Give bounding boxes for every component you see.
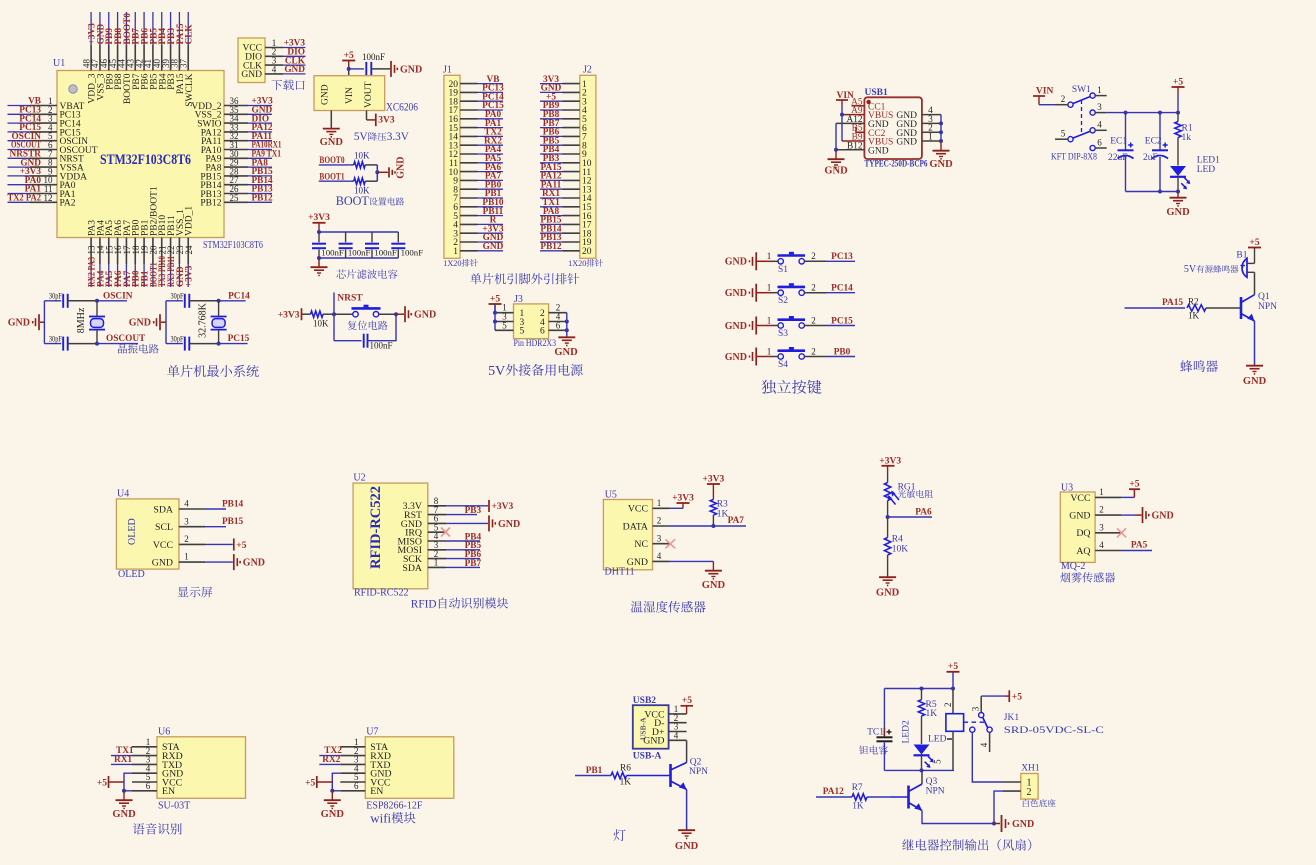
wire bottom rail (relay) <box>884 768 954 772</box>
svg-text:1: 1 <box>928 133 933 143</box>
svg-text:+5: +5 <box>948 662 958 672</box>
svg-text:2: 2 <box>1099 505 1104 515</box>
wire left rail <box>43 301 45 344</box>
svg-text:LED: LED <box>928 735 947 745</box>
svg-text:1: 1 <box>767 346 772 356</box>
ground symbol (filter) <box>311 258 328 275</box>
net label PC14 <box>219 291 251 301</box>
svg-text:S1: S1 <box>778 265 788 275</box>
svg-text:2: 2 <box>811 251 816 261</box>
svg-text:wifi: wifi <box>370 810 391 825</box>
svg-text:+5: +5 <box>1173 77 1183 87</box>
U5 pin 4 GND <box>627 551 670 568</box>
svg-text:SRD-05VDC-SL-C: SRD-05VDC-SL-C <box>1004 726 1104 736</box>
U1 pin 16 PA6 / wire net PA6 <box>113 220 124 287</box>
label 钽电容 <box>859 746 888 755</box>
net label OSCIN <box>97 291 133 301</box>
no-connect NC <box>666 539 676 548</box>
LED1 <box>1170 156 1220 192</box>
svg-text:GND: GND <box>400 64 422 75</box>
capacitor 30pF bottom (32.768K) <box>166 333 221 350</box>
J1 pin 12 net PA4 <box>449 145 504 160</box>
wire net PB3 <box>446 506 481 516</box>
capacitor 100nF filter #2 <box>339 232 371 258</box>
U1 pin 27 PB14 / wire net PB14 <box>200 175 273 191</box>
svg-text:S3: S3 <box>778 329 788 339</box>
caption 继电器控制输出（风扇） <box>902 839 1031 851</box>
svg-text:TC1: TC1 <box>867 728 884 738</box>
USB2 pin 2 D- <box>654 713 686 729</box>
svg-text:1K: 1K <box>717 510 729 520</box>
no-connect DQ <box>1117 528 1126 537</box>
U1 pin 9 VDDA / wire net +3V3 <box>8 166 88 182</box>
wire GND/EN rail (U7) <box>330 773 340 793</box>
U7 pin 1 STA <box>340 737 388 753</box>
J1 pin 20 net VB <box>449 75 504 90</box>
svg-text:GND: GND <box>876 588 900 599</box>
U4 pin 1 GND <box>152 552 205 569</box>
svg-text:NPN: NPN <box>689 767 708 777</box>
transistor Q1 NPN <box>1241 272 1277 321</box>
USB1 right pin 1 GND <box>896 133 941 148</box>
USB1 pin B9 VBUS <box>852 133 894 148</box>
U1 pin 39 PB3 / wire net PB3 <box>161 12 177 90</box>
power flag +3V3 (U5) <box>670 493 695 508</box>
ground flag GND (S1) <box>725 252 772 270</box>
wire net PB4 <box>446 532 481 542</box>
USB1 wire VBUS A9/B9 to VIN <box>840 106 864 141</box>
U1 pin 15 PA5 / wire net PA5 <box>104 220 115 287</box>
svg-text:LED1: LED1 <box>1197 156 1220 166</box>
power flag +5 (relay) <box>947 662 960 688</box>
connector XH1 <box>1003 764 1040 800</box>
crystal 8MHz <box>76 301 105 344</box>
svg-text:B1: B1 <box>1236 251 1247 261</box>
svg-text:4: 4 <box>979 742 989 747</box>
caption 5V有源蜂鸣器 <box>1184 264 1238 275</box>
ground flag GND (crystal 32.768K) <box>129 314 166 330</box>
download port pin 2 DIO net DIO <box>245 47 305 63</box>
caption 下载口 <box>271 80 304 91</box>
wire GND pin to ground <box>330 111 332 128</box>
U2 pin 8 3.3V <box>403 496 446 512</box>
ground symbol (U7) <box>321 791 345 820</box>
svg-text:NPN: NPN <box>926 786 945 796</box>
U1 pin 8 VSSA / wire net GND <box>8 158 84 174</box>
U1 pin 10 PA0 / wire net PA0 <box>8 175 76 191</box>
svg-text:GND: GND <box>1243 376 1267 387</box>
U1 pin 40 PB4 / wire net PB4 <box>152 12 168 90</box>
J1 pin 18 net PC14 <box>449 92 505 107</box>
svg-text:2: 2 <box>811 283 816 293</box>
capacitor EC1 22uF <box>1108 113 1134 192</box>
caption 温湿度传感器 <box>631 601 706 613</box>
U7 pin 3 TXD <box>340 755 390 771</box>
svg-text:GND: GND <box>868 146 889 156</box>
wire bottom rail <box>317 256 398 260</box>
wire +5 rail left <box>493 304 497 330</box>
U1 pin 35 VSS_2 / wire net GND <box>195 105 273 121</box>
svg-text:GND: GND <box>241 70 262 80</box>
svg-text:TX2 PA2: TX2 PA2 <box>8 194 42 204</box>
ground symbol (SW1 block) <box>1166 198 1190 218</box>
power flag VIN (SW1) <box>1033 87 1053 105</box>
svg-text:+5: +5 <box>490 294 500 304</box>
svg-text:SCL: SCL <box>155 522 173 533</box>
svg-text:VOUT: VOUT <box>364 81 374 108</box>
J3 pin 5 wire <box>495 320 514 330</box>
USB1 stub CC1 <box>852 105 865 107</box>
U2 pin 5 IRQ <box>405 522 446 538</box>
U1 pin 45 PB8 / wire net PB8 <box>108 12 124 90</box>
U1 pin 37 SWCLK / wire net CLK <box>179 12 195 107</box>
capacitor EC2 2uF <box>1143 113 1168 192</box>
svg-text:GND: GND <box>1012 819 1034 830</box>
U7 pin 2 RXD <box>340 746 391 762</box>
svg-text:GND: GND <box>675 841 699 852</box>
svg-text:SDA: SDA <box>153 504 173 515</box>
svg-text:R4: R4 <box>892 535 903 545</box>
U6 pin 4 GND <box>132 763 183 779</box>
wire left rail <box>165 301 167 344</box>
svg-text:RX2: RX2 <box>322 755 340 765</box>
resistor 10K (reset) <box>311 311 335 328</box>
USB2 pin 4 GND <box>643 731 686 747</box>
svg-text:+5: +5 <box>1129 480 1139 490</box>
svg-text:KFT DIP-8X8: KFT DIP-8X8 <box>1051 153 1097 163</box>
svg-text:R1: R1 <box>1182 124 1193 134</box>
svg-text:PB12: PB12 <box>252 194 274 204</box>
svg-text:DQ: DQ <box>1076 528 1090 539</box>
resistor 10K (BOOT1) <box>354 178 378 195</box>
svg-text:XC6206: XC6206 <box>386 99 418 113</box>
capacitor 30pF top (8MHz) <box>44 290 99 307</box>
svg-text:GND: GND <box>396 157 407 179</box>
svg-text:1K: 1K <box>926 709 938 719</box>
module U7 ESP8266-12F <box>365 727 454 812</box>
svg-text:1X20: 1X20 <box>568 259 586 268</box>
svg-text:OSCOUT: OSCOUT <box>106 334 146 344</box>
caption 单片机最小系统 <box>167 365 259 377</box>
svg-text:1k: 1k <box>1182 133 1192 143</box>
J1 pin 15 net PA1 <box>449 119 504 134</box>
caption wifi模块 <box>370 810 415 825</box>
J3 pin 4 wire <box>549 312 567 322</box>
caption 独立按键 <box>761 380 821 394</box>
power flag +5 (U6) <box>97 776 124 788</box>
U5 pin 2 DATA <box>623 516 670 533</box>
svg-text:1: 1 <box>657 498 662 508</box>
wire top rail <box>317 230 398 234</box>
svg-text:VIN: VIN <box>345 87 355 104</box>
svg-text:U2: U2 <box>353 473 365 484</box>
J2 pin 1 net 3V3 <box>540 75 587 90</box>
USB1 pin B5 CC2 <box>852 124 886 139</box>
svg-text:GND: GND <box>243 558 265 569</box>
svg-text:22uF: 22uF <box>1108 153 1128 163</box>
U1 pin 30 PA9 / wire net PA9 TX1 <box>205 149 281 165</box>
svg-text:VDD_1: VDD_1 <box>185 206 195 236</box>
svg-text:VIN: VIN <box>1036 87 1054 97</box>
download port pin 3 CLK net CLK <box>243 56 306 72</box>
USB1 right pin 4 GND <box>896 106 941 121</box>
wire net PB6 <box>446 550 481 560</box>
svg-text:SU-03T: SU-03T <box>158 801 190 812</box>
svg-text:CLK: CLK <box>185 24 195 45</box>
svg-text:GND: GND <box>725 321 747 332</box>
svg-text:GND: GND <box>8 318 30 329</box>
svg-text:5V: 5V <box>354 131 368 143</box>
regulator U? XC6206 <box>314 76 418 114</box>
U3 pin 2 GND <box>1069 505 1121 522</box>
svg-text:R6: R6 <box>620 764 631 774</box>
U2 pin 4 MISO <box>398 531 447 547</box>
svg-text:1: 1 <box>767 315 772 325</box>
J1 pin 16 net PA0 <box>449 110 504 125</box>
caption 晶振电路 <box>118 344 159 354</box>
svg-text:JK1: JK1 <box>1004 713 1020 723</box>
svg-text:2uF: 2uF <box>1143 153 1158 163</box>
svg-text:Q1: Q1 <box>1258 292 1270 302</box>
svg-text:100nF: 100nF <box>370 340 393 350</box>
rfid U2 RFID-RC522 <box>353 473 428 599</box>
J2 pin 17 net PB15 <box>540 216 592 231</box>
power flag 3V3 <box>376 114 395 127</box>
svg-text:3: 3 <box>1097 102 1102 112</box>
J2 pin 10 net PB3 <box>540 154 592 169</box>
ground symbol (Q2) <box>675 830 699 852</box>
U1 pin 31 PA10 / wire net PA10RX1 <box>201 140 282 156</box>
svg-text:1K: 1K <box>852 802 864 812</box>
svg-text:+3V3: +3V3 <box>308 213 330 223</box>
svg-text:Pin HDR2X3: Pin HDR2X3 <box>514 339 557 349</box>
transistor Q2 NPN <box>671 758 709 790</box>
net label BOOT0 / wire <box>319 156 354 166</box>
svg-text:1X20: 1X20 <box>443 259 461 268</box>
svg-text:USB2: USB2 <box>633 696 656 706</box>
J2 pin 14 net RX1 <box>540 189 592 204</box>
svg-text:32.768K: 32.768K <box>198 302 209 338</box>
U3 pin 1 VCC <box>1070 487 1121 504</box>
svg-text:GND: GND <box>929 159 953 170</box>
svg-text:100nF: 100nF <box>362 52 385 62</box>
svg-text:R7: R7 <box>852 783 863 793</box>
crystal 32.768K <box>198 301 227 344</box>
svg-text:30pF: 30pF <box>171 290 184 300</box>
wire net PC15 <box>826 316 855 326</box>
U4 pin 2 VCC <box>153 534 205 551</box>
U1 pin 20 PB2/BOOT1 / wire net BOOT1 <box>149 186 160 287</box>
U3 pin 3 DQ <box>1076 522 1121 539</box>
svg-text:5V: 5V <box>488 364 505 379</box>
svg-text:R2: R2 <box>1188 297 1199 307</box>
capacitor 100nF input <box>362 52 390 76</box>
caption 5V外接备用电源 <box>488 364 583 379</box>
wire GND/EN rail (U6) <box>122 773 132 793</box>
caption 1X20排针 (J2) <box>568 259 603 268</box>
svg-text:PA5: PA5 <box>1131 541 1148 551</box>
power flag +5 (U3) <box>1121 480 1140 498</box>
svg-text:DATA: DATA <box>623 521 648 532</box>
svg-text:1: 1 <box>453 247 458 257</box>
caption 显示屏 <box>178 587 213 598</box>
ground flag GND (S3) <box>725 317 772 335</box>
wire +5 to VIN <box>347 67 364 76</box>
svg-text:4: 4 <box>272 64 277 74</box>
J3 pin 1 wire <box>495 303 514 313</box>
capacitor 100nF filter #1 <box>312 232 344 258</box>
caption 蜂鸣器 <box>1180 360 1218 372</box>
svg-text:6: 6 <box>556 320 561 330</box>
svg-text:LED: LED <box>1197 165 1216 175</box>
svg-text:1K: 1K <box>1188 311 1200 321</box>
svg-text:3: 3 <box>657 533 662 543</box>
svg-text:1: 1 <box>434 558 439 568</box>
net label BOOT1 / wire <box>319 173 354 183</box>
svg-text:4: 4 <box>657 551 662 561</box>
svg-text:PC15: PC15 <box>831 316 853 326</box>
svg-text:SDA: SDA <box>402 563 422 574</box>
svg-text:1: 1 <box>1099 487 1104 497</box>
connector download port (VCC DIO CLK GND) <box>238 38 265 83</box>
wire net PC14 <box>826 284 855 294</box>
push button S4 <box>767 346 826 370</box>
J3 pin 3 wire <box>495 312 514 322</box>
svg-text:NRST: NRST <box>337 293 363 303</box>
svg-text:GND: GND <box>321 84 331 105</box>
USB1 wire GND A12/B12 <box>834 123 864 158</box>
net label PC15 <box>219 334 250 344</box>
download port pin 4 GND net GND <box>241 64 305 80</box>
ground symbol (RG1) <box>876 577 900 598</box>
svg-text:+3V3: +3V3 <box>185 265 195 287</box>
svg-text:PC14: PC14 <box>228 291 250 301</box>
caption 灯 <box>614 829 626 841</box>
J2 pin 16 net PA8 <box>540 207 592 222</box>
J2 pin 18 net PB14 <box>540 224 592 239</box>
resistor R6 1K / net PB1 <box>575 764 671 788</box>
U2 pin 3 MOSI <box>398 540 447 556</box>
svg-text:OLED: OLED <box>118 569 145 580</box>
power flag +5 (LED1) <box>1172 77 1185 112</box>
svg-text:SWCLK: SWCLK <box>185 73 195 106</box>
wire emitter to gnd (Q2) <box>686 790 688 830</box>
svg-text:RFID-RC522: RFID-RC522 <box>368 486 384 569</box>
ground flag GND (U4) <box>205 554 265 570</box>
svg-text:NPN: NPN <box>1258 302 1277 312</box>
svg-text:U4: U4 <box>117 488 129 499</box>
power flag +5 (buzzer) <box>1248 238 1261 264</box>
U7 pin 5 VCC <box>340 772 390 788</box>
svg-text:U6: U6 <box>158 727 170 738</box>
svg-text:OLED: OLED <box>127 518 138 545</box>
svg-text:LED2: LED2 <box>902 720 912 743</box>
svg-text:NC: NC <box>634 539 648 550</box>
svg-text:4: 4 <box>184 499 189 509</box>
U1 pin 42 PB6 / wire net PB6 <box>134 12 150 90</box>
USB1 right pin 2 GND <box>896 124 941 139</box>
J2 pin 3 net +5 <box>540 92 587 107</box>
J2 pin 15 net TX1 <box>540 198 592 213</box>
svg-text:2: 2 <box>811 346 816 356</box>
svg-text:RFID-RC522: RFID-RC522 <box>354 588 408 599</box>
USB1 stub CC2 <box>856 127 864 132</box>
wire top rail (relay) <box>884 687 955 691</box>
svg-text:12: 12 <box>44 193 53 203</box>
caption 单片机引脚外引排针 <box>470 273 579 284</box>
push button S1 <box>767 251 826 275</box>
U1 pin 14 PA4 / wire net PA4 <box>96 220 107 287</box>
U2 pin 7 RST <box>404 505 446 521</box>
svg-text:GND: GND <box>1152 511 1174 522</box>
svg-text:GND: GND <box>498 519 520 530</box>
svg-text:10K: 10K <box>354 150 370 160</box>
U1 pin 47 VSS_3 / wire net GND <box>90 12 106 100</box>
power flag +3V3 (reset) <box>278 308 311 320</box>
svg-text:PC15: PC15 <box>228 334 250 344</box>
ground flag GND (crystal 8MHz) <box>8 314 45 330</box>
svg-text:STM32F103C8T6: STM32F103C8T6 <box>100 151 191 168</box>
ground flag GND (boot) rotated <box>389 157 407 179</box>
svg-text:+3V3: +3V3 <box>492 502 514 512</box>
power flag +5 <box>342 51 355 69</box>
svg-text:Q2: Q2 <box>690 758 702 768</box>
connector J2 1x20 header <box>580 65 596 259</box>
svg-text:30pF: 30pF <box>49 290 62 300</box>
caption 语音识别 <box>133 823 182 835</box>
svg-text:GND: GND <box>414 310 436 321</box>
net label NRST / wire <box>332 293 363 341</box>
svg-text:XH1: XH1 <box>1021 764 1040 774</box>
U1 pin 28 PB15 / wire net PB15 <box>200 166 273 182</box>
J2 pin 8 net PB5 <box>540 136 587 151</box>
svg-text:GND: GND <box>824 166 848 177</box>
USB1 right pin 3 GND <box>896 115 941 130</box>
svg-text:30pF: 30pF <box>171 333 184 343</box>
ground flag GND (reset) <box>396 306 436 322</box>
svg-text:GND: GND <box>725 352 747 363</box>
svg-text:8MHz: 8MHz <box>76 307 87 333</box>
ground flag GND (U2) <box>446 515 520 531</box>
capacitor 100nF filter #4 <box>391 232 423 258</box>
wire net PB15 <box>205 517 244 527</box>
svg-text:U5: U5 <box>605 490 617 501</box>
J1 pin 1 net GND <box>453 242 503 257</box>
svg-text:PB1: PB1 <box>586 766 603 776</box>
svg-text:PB3: PB3 <box>465 506 482 516</box>
J1 pin 11 net PA5 <box>449 154 503 169</box>
svg-text:EN: EN <box>162 786 175 797</box>
svg-text:24: 24 <box>184 245 194 255</box>
svg-text:RX1: RX1 <box>114 755 132 765</box>
resistor R5 1K <box>918 689 937 745</box>
svg-text:PC13: PC13 <box>831 252 853 262</box>
U4 pin 3 SCL <box>155 516 205 533</box>
U1 pin 21 PB10 / wire net TX3 PB10 <box>157 215 168 287</box>
svg-text:GND: GND <box>896 138 917 148</box>
U1 pin 18 PB0 / wire net PB0 <box>131 219 142 287</box>
svg-text:PB0: PB0 <box>834 347 851 357</box>
svg-text:10K: 10K <box>892 545 909 555</box>
svg-text:GND: GND <box>483 242 504 252</box>
J1 pin 9 net PA7 <box>453 172 503 187</box>
svg-text:PC14: PC14 <box>831 284 853 294</box>
svg-text:PA12: PA12 <box>823 787 844 797</box>
J2 pin 11 net PA15 <box>540 163 591 178</box>
svg-text:S4: S4 <box>778 360 788 370</box>
svg-text:+5: +5 <box>1012 693 1022 703</box>
connector USB2 USB-A <box>633 696 669 761</box>
